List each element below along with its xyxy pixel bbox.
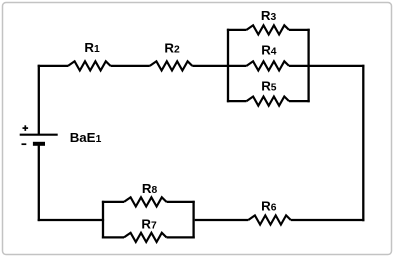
wire: R5 branch left lead bbox=[227, 100, 247, 102]
wire: bottom rail, right corner to R6 bbox=[291, 219, 365, 221]
battery BaE1: positive plate (long) bbox=[20, 134, 58, 136]
wire: lower bank left bus to bottom-left corner bbox=[38, 219, 104, 221]
wire: R8 branch right lead bbox=[167, 201, 195, 203]
wire: R4 to top-right corner bbox=[289, 65, 364, 67]
battery polarity: plus sign bbox=[23, 125, 29, 131]
wire: R3 branch right lead bbox=[289, 29, 310, 31]
resistor R8 bbox=[124, 181, 167, 207]
resistor R4 bbox=[247, 43, 290, 71]
resistor R2 bbox=[150, 40, 193, 70]
svg-text:R7: R7 bbox=[141, 217, 157, 232]
wire: right rail down bbox=[362, 65, 364, 221]
svg-text:R6: R6 bbox=[261, 199, 277, 214]
node: parallel bank left bus bbox=[227, 29, 229, 102]
node: lower bank right bus bbox=[192, 201, 194, 239]
svg-text:R8: R8 bbox=[142, 181, 158, 196]
svg-text:R2: R2 bbox=[164, 40, 180, 55]
wire: R8 branch left lead bbox=[102, 201, 124, 203]
svg-text:R5: R5 bbox=[261, 79, 277, 94]
resistor R1 bbox=[68, 40, 111, 71]
wire: R3 branch left lead bbox=[227, 29, 247, 31]
battery polarity: minus sign bbox=[22, 143, 27, 145]
wire: R5 branch right lead bbox=[289, 100, 310, 102]
wire: between R1 and R2 bbox=[111, 65, 150, 67]
wire: left rail from battery - plate down to bottom-left corner bbox=[38, 144, 40, 221]
battery BaE1: negative plate (short thick) bbox=[33, 142, 45, 146]
node: parallel bank right bus bbox=[307, 29, 309, 102]
wire: R2 to parallel bank, crossing left bus, to R4 bbox=[192, 65, 246, 67]
resistor R3 bbox=[247, 8, 290, 35]
resistor R7 bbox=[124, 217, 167, 243]
resistor R6 bbox=[248, 199, 290, 225]
node: lower bank left bus bbox=[102, 201, 104, 239]
wire: R7 branch right lead bbox=[167, 236, 195, 238]
svg-text:BaE1: BaE1 bbox=[70, 130, 102, 145]
svg-text:R3: R3 bbox=[261, 8, 277, 23]
wire: R6 to parallel bank right bus bbox=[195, 219, 249, 221]
resistor R5 bbox=[247, 79, 290, 106]
wire: R7 branch left lead bbox=[102, 236, 124, 238]
svg-text:R4: R4 bbox=[261, 43, 277, 58]
wire: left rail from top-left corner down to battery + plate bbox=[38, 65, 40, 135]
svg-text:R1: R1 bbox=[84, 40, 100, 55]
wire: top rail, left corner to R1 bbox=[38, 65, 68, 67]
battery label BaE1 bbox=[70, 130, 102, 145]
